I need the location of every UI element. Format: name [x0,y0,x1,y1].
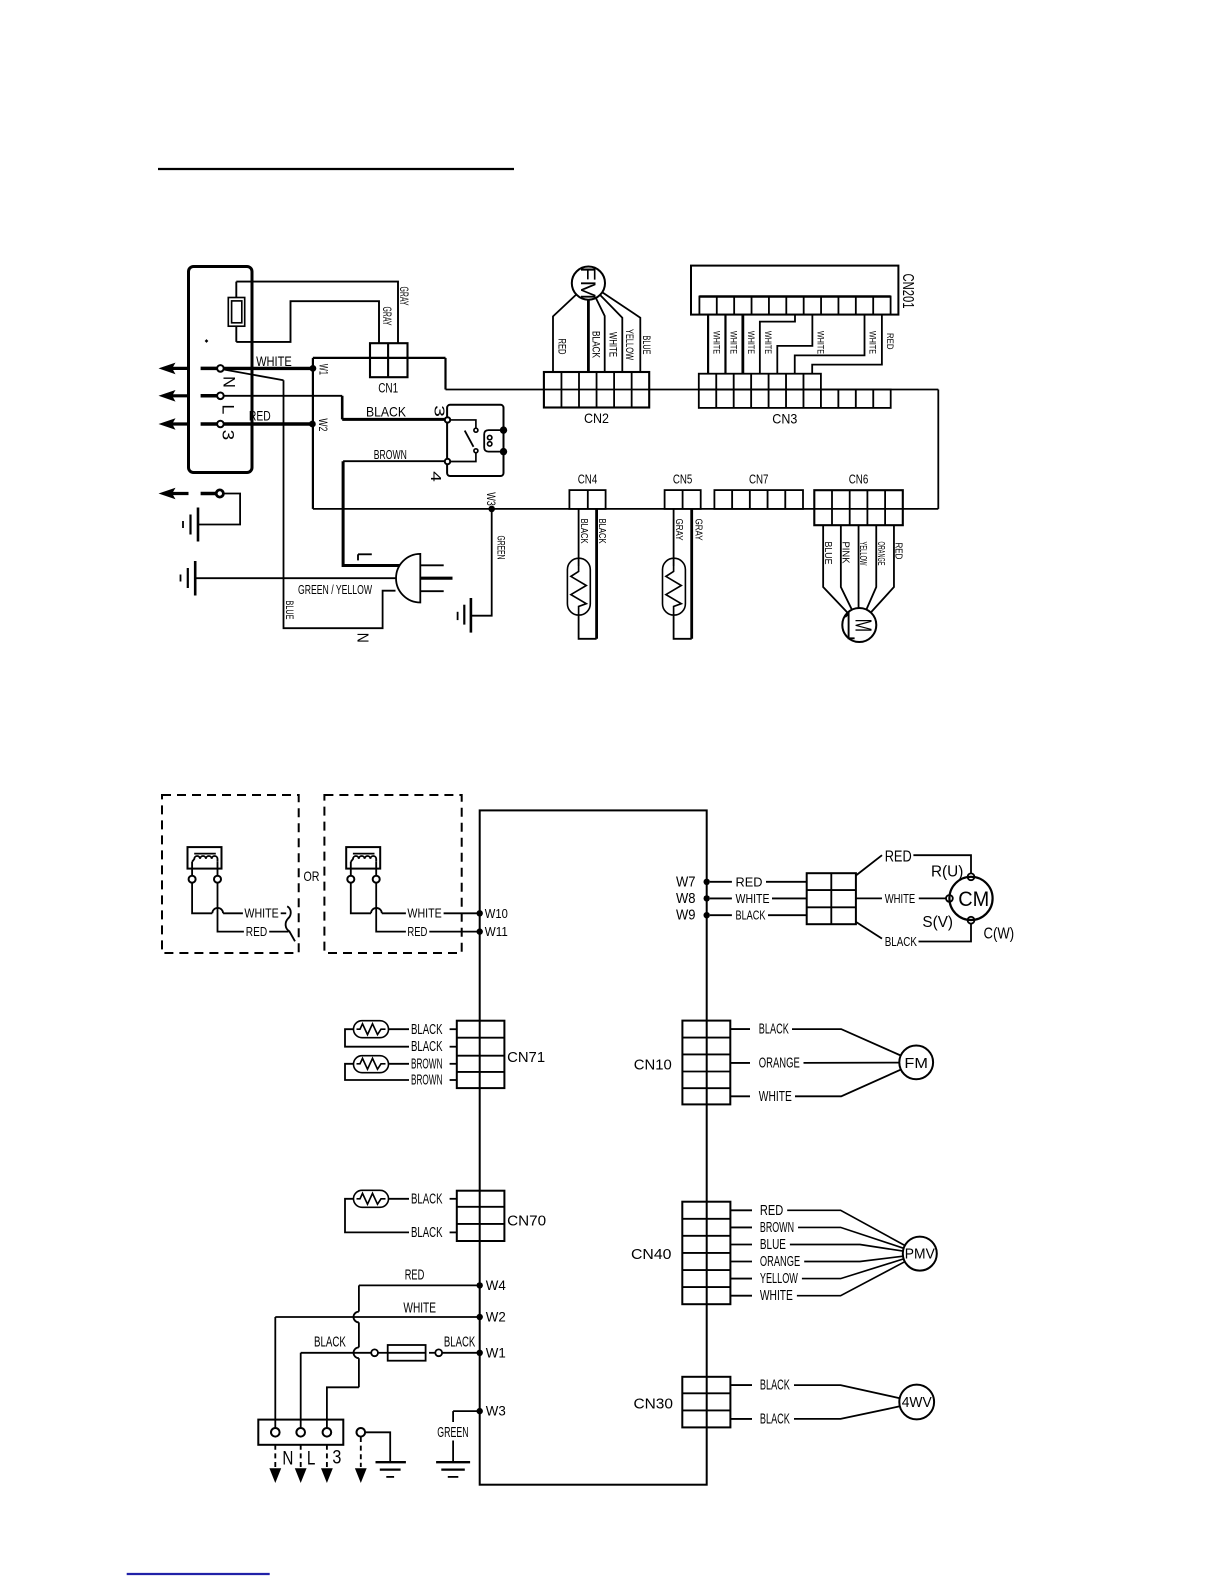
wire CN6 BLUE to M [823,525,847,613]
svg-text:RED: RED [249,407,271,423]
svg-text:YELLOW: YELLOW [623,329,635,360]
svg-text:W2: W2 [486,1309,506,1325]
wire CN201-2 to CN3-2 [724,315,726,374]
svg-text:CN7: CN7 [749,472,769,486]
wire CN6 YELLOW to M [858,525,860,608]
wire right vertical down to bus [937,390,939,509]
wire CN40 BLUE to PMV [790,1245,903,1252]
svg-text:4: 4 [427,471,444,482]
wire H2 loop [345,1064,409,1080]
node W2 dot [309,421,316,428]
wire CN201-7 to CN3-5 [777,315,812,374]
connector CN71 [457,1021,505,1088]
stub CN70 row1 [450,1198,457,1200]
fuse F1 outer body [228,298,244,327]
svg-text:RED: RED [736,875,763,889]
svg-text:CM: CM [958,888,989,911]
ground G3 symbol [470,598,473,633]
node W8 dot [704,895,710,901]
node W10 dot [477,910,483,916]
svg-text:FM: FM [576,267,599,300]
svg-text:BROWN: BROWN [411,1055,443,1072]
wire W9 BLACK a [710,914,732,916]
node W3 dot bottom [477,1408,483,1414]
svg-text:BLACK: BLACK [596,519,608,544]
wire W7 RED a [710,881,732,883]
wire CM WHITE b [919,897,946,899]
svg-text:BLUE: BLUE [640,336,652,355]
svg-text:WHITE: WHITE [403,1299,436,1316]
wire W1 W2 vertical link [312,358,314,424]
svg-text:BLACK: BLACK [411,1038,443,1055]
svg-text:W3: W3 [484,492,498,506]
svg-text:WHITE: WHITE [607,332,619,357]
wire CN201-11 to CN3-7 [812,315,882,374]
wire W8 WHITE b [772,897,807,899]
node W4 dot [477,1282,483,1288]
svg-text:BLACK: BLACK [411,1190,443,1207]
terminal N circle [217,365,224,372]
heater H2 zigzag [357,1058,386,1069]
wire W7 RED b [766,881,807,883]
connector CN2 [544,372,649,408]
wire BLACK W1 a [301,1352,372,1354]
svg-text:BLACK: BLACK [411,1021,443,1038]
hook squiggle option1 [286,906,295,941]
wire fuse bottom lead [235,326,237,342]
svg-text:RED: RED [405,1267,425,1284]
wire CM RED to top [913,855,971,873]
node W9 dot [704,912,710,918]
svg-text:RED: RED [884,333,895,350]
wire TH2 bottom [674,615,692,639]
wire L to corner [224,395,342,397]
svg-text:BROWN: BROWN [374,448,407,462]
svg-text:BLACK: BLACK [590,331,602,358]
plug pin N [420,590,443,592]
svg-text:W2: W2 [316,418,330,431]
plug pin L [420,564,443,566]
wire CN201-3 to CN3-3 [741,315,744,374]
fuse F2 circle left [371,1349,378,1356]
wire WHITE N to W1 [224,367,313,370]
svg-text:WHITE: WHITE [745,331,756,354]
wire fuse link [378,1352,388,1354]
heater H3 zigzag [357,1193,386,1204]
svg-text:L: L [307,1448,316,1469]
stub CN71 row4 [450,1079,457,1081]
relay switch blade [465,431,474,447]
fuse F2 circle right [435,1349,442,1356]
terminal R(U) circle [968,873,975,880]
svg-text:BLACK: BLACK [411,1224,443,1241]
connector CN6 [814,490,903,525]
wire GRAY inner bottom [236,301,379,343]
blue footer line [127,1573,270,1575]
svg-text:S(V): S(V) [922,914,953,931]
arrow to indoor L [159,390,176,402]
stub CN71 row2 [450,1046,457,1048]
wire T1 red lead [218,883,244,932]
svg-text:M: M [850,619,876,633]
ground G5 symbol [376,1461,406,1463]
svg-text:BLACK: BLACK [314,1333,346,1350]
wire FM YELLOW [600,295,622,372]
transformer T1 [188,847,222,869]
wire CN40 WHITE to PMV [797,1262,905,1296]
svg-text:N: N [282,1448,293,1469]
svg-text:C(W): C(W) [984,925,1015,942]
svg-text:GRAY: GRAY [380,307,392,326]
arrow lead N [274,1445,276,1467]
terminal earth2 circle [357,1428,366,1437]
svg-text:BLACK: BLACK [366,404,407,420]
svg-text:GRAY: GRAY [673,519,685,541]
wire CN201-6 to CN3-4 [760,315,795,374]
arrow to indoor 3 [159,418,176,430]
motor FM circle [572,267,605,300]
label L mark near plug [358,553,372,555]
svg-text:CN4: CN4 [578,472,598,486]
valve 4WV circle [899,1385,934,1420]
wire CN6 ORANGE to M [866,525,876,609]
wire W1 up to CN1 middle [313,357,446,359]
wire T1 red dash [269,931,288,933]
svg-text:L: L [219,404,238,414]
relay coil dot bottom [500,448,507,455]
svg-text:OR: OR [304,868,320,884]
node W7 dot [704,879,710,885]
PCB outline box [480,810,707,1484]
stub CN71 row1 [450,1028,457,1030]
svg-text:W4: W4 [486,1277,506,1293]
connector CN3 bottom row [699,390,891,408]
svg-text:WHITE: WHITE [760,1287,793,1304]
stub CN40 row3 [730,1244,752,1246]
wire CN40 BROWN to PMV [798,1227,904,1248]
svg-text:GREEN: GREEN [437,1424,468,1441]
svg-text:WHITE: WHITE [759,1088,792,1105]
wire CN10 WHITE to FM [795,1070,901,1097]
connector CN5 [665,490,701,509]
wire T2 red to W11 [429,931,479,933]
svg-text:3: 3 [431,405,448,417]
terminal block TB2 [258,1420,343,1445]
svg-text:RED: RED [555,339,567,355]
svg-text:RED: RED [885,849,912,866]
wire L-live down to plug [343,461,400,565]
wire CN5 right pin [690,509,693,639]
wire CN30 BLACK2 to 4WV [794,1406,900,1419]
stub CN70 row3 [450,1231,457,1233]
svg-text:N: N [353,633,370,643]
terminal S(V) circle [946,895,953,902]
wire CM RED diag [856,855,882,875]
connector CN4 [569,490,605,509]
wire WHITE to terminal N [274,1317,276,1428]
wire CN4 right pin [595,509,598,639]
svg-text:3: 3 [219,430,238,441]
connector CN30 [682,1377,730,1428]
small dot marker [205,339,209,343]
svg-text:CN30: CN30 [634,1397,674,1413]
terminal earth circle [216,490,223,497]
svg-text:BROWN: BROWN [411,1072,443,1089]
terminal 32 circle [323,1428,332,1437]
stub CN10 row5 [730,1095,750,1097]
arrow lead L [300,1445,302,1467]
svg-text:PINK: PINK [839,542,851,564]
connector CN1 [370,343,408,377]
svg-text:BROWN: BROWN [760,1219,794,1236]
wire TH1 bottom [579,615,597,639]
svg-text:W1: W1 [486,1344,506,1360]
sensor TH2 resistor zigzag [666,566,681,615]
svg-text:RED: RED [246,925,267,939]
wire T2 white lead [351,883,371,914]
svg-text:BLUE: BLUE [822,542,834,565]
svg-text:RED: RED [893,543,905,560]
fuse F1 inner body [232,301,242,323]
wire W9 BLACK b [768,914,807,916]
svg-text:W1: W1 [317,364,331,375]
svg-text:CN6: CN6 [849,472,869,486]
wire CN1 mid down to main line [444,358,446,390]
stub CN30 row1 [730,1384,752,1386]
stub CN40 row4 [730,1261,752,1263]
svg-text:W10: W10 [485,906,508,921]
wire CN201-1 to CN3-1 [707,315,709,374]
svg-text:CN3: CN3 [772,411,797,427]
svg-text:BLACK: BLACK [578,519,590,544]
ground G1 symbol [197,508,200,542]
dashed box option 2 [324,795,461,953]
svg-text:CN201: CN201 [899,274,916,309]
wire W2 down to bus [312,424,314,509]
wire T1 white dash [281,912,287,914]
relay coil dot top [500,426,507,433]
arrow lead earth [360,1437,362,1467]
stub CN10 row1 [730,1028,750,1030]
bus wire bottom [313,508,938,510]
valve PMV circle [903,1237,937,1271]
connector CN40 [682,1202,730,1305]
stub CN71 row3 [450,1063,457,1065]
ground G4 symbol [436,1461,470,1463]
stub CN40 row6 [730,1295,752,1297]
svg-text:N: N [220,376,239,388]
wire GREEN vertical a [452,1411,454,1422]
sensor TH1 body [567,558,590,615]
wire BROWN relay4 to corner [343,460,445,462]
wire BLACK W1 b [429,1352,435,1354]
node W2 dot bottom [477,1314,483,1320]
terminal L stub [201,394,217,398]
svg-text:CN40: CN40 [631,1247,671,1263]
arrow to indoor earth [159,488,176,500]
relay contact bottom circle [474,449,478,453]
node W11 dot [477,928,483,934]
stub CN40 row5 [730,1278,752,1280]
svg-text:WHITE: WHITE [867,331,878,354]
svg-text:BLACK: BLACK [736,909,766,923]
terminal earth stub [201,492,216,496]
terminal N stub [201,367,217,371]
relay contact wire top [450,420,476,428]
wire GREEN vertical b [452,1441,454,1463]
heater H1 zigzag [357,1024,386,1035]
plug body [396,554,420,603]
wire FM BLACK [587,300,590,372]
svg-text:ORANGE: ORANGE [875,542,887,566]
terminal L circle [217,393,224,400]
wire CN6 PINK to M [841,525,852,610]
svg-text:GREEN: GREEN [494,536,506,560]
ground G2 symbol [194,561,197,596]
stub CN40 row1 [730,1209,752,1211]
svg-text:WHITE: WHITE [736,892,770,906]
svg-text:BLACK: BLACK [760,1410,790,1427]
wire main line to CN3 right [446,389,939,391]
wire WHITE W2 [275,1316,479,1318]
wire W8 WHITE a [710,897,732,899]
wire CN30 BLACK1 to 4WV [794,1385,900,1398]
connector CN7 [714,490,803,509]
heater H1 body [354,1021,389,1038]
wire T2 red lead [376,883,406,932]
wire GREEN/YELLOW to plug [195,577,396,579]
sensor TH2 body [663,558,686,615]
wire CM BLACK diag [856,922,882,939]
connector CN70 [457,1191,505,1241]
wire BLACK to relay 3 [342,418,446,421]
stub CN30 row3 [730,1418,752,1420]
wire CN10 ORANGE to FM [804,1062,900,1064]
svg-text:BLUE: BLUE [283,601,295,620]
svg-text:FM: FM [904,1055,928,1072]
terminal C(W) circle [968,917,975,924]
stub CN40 row2 [730,1226,752,1228]
terminal N2 circle [271,1428,280,1437]
relay coil loop 1 [488,435,492,439]
relay contact wire bottom [450,453,476,462]
svg-text:CN71: CN71 [507,1050,545,1066]
terminal 3 stub [201,422,217,426]
sensor TH1 resistor zigzag [571,566,586,615]
terminal L2 circle [296,1428,305,1437]
svg-text:WHITE: WHITE [244,907,278,921]
label 1 of 1M [845,614,854,639]
connector CN201 outer [691,266,898,315]
svg-text:WHITE: WHITE [256,353,292,369]
node W1 dot bottom [477,1350,483,1356]
svg-text:3: 3 [332,1448,341,1469]
relay terminal 3 circle [445,417,450,422]
wire GREEN down [471,509,492,616]
svg-text:BLACK: BLACK [759,1021,789,1038]
wire CN6 RED to M [871,525,894,612]
wire CN40 RED to PMV [787,1210,905,1245]
wire earth to ground1 [198,494,240,525]
arrow lead 3 [326,1445,328,1467]
wire BLUE down [284,380,396,628]
wire RED vertical with hops [358,1285,360,1311]
arrow to indoor N [159,363,176,375]
wire H2 to BROWN [389,1063,410,1065]
transformer T2 [346,847,380,869]
svg-text:CN2: CN2 [584,410,609,426]
wire GREEN W3 [453,1410,480,1412]
wire T1 white lead [192,883,212,914]
svg-text:WHITE: WHITE [762,331,773,354]
fuse F2 body [388,1345,426,1361]
svg-text:R(U): R(U) [931,864,963,881]
wire CN5 left pin [673,509,675,566]
svg-text:W9: W9 [676,907,696,924]
terminal block TB1 [189,267,253,473]
motor M circle [842,608,876,642]
motor FM2 circle [899,1046,933,1080]
svg-text:BLACK: BLACK [444,1333,475,1350]
wire CN40 ORANGE to PMV [804,1256,903,1261]
relay coil [484,430,502,452]
wire H1 loop [345,1029,409,1047]
svg-text:GRAY: GRAY [397,287,409,306]
stub CN10 row3 [730,1062,750,1064]
node W1 dot [310,365,317,372]
connector CN10 [682,1021,730,1105]
svg-text:WHITE: WHITE [728,331,739,354]
wire N diagonal from terminal [224,370,284,381]
wire H3 to BLACK [389,1198,410,1200]
wire fuse top lead [235,282,237,298]
svg-text:GRAY: GRAY [692,519,704,541]
wire FM RED [553,295,576,373]
svg-text:WHITE: WHITE [815,331,826,354]
svg-text:WHITE: WHITE [710,331,721,354]
svg-text:YELLOW: YELLOW [857,542,869,566]
svg-text:ORANGE: ORANGE [759,1054,800,1071]
svg-text:GREEN / YELLOW: GREEN / YELLOW [298,582,372,597]
wire FM BLUE [602,292,640,372]
wire H3 loop [345,1199,409,1233]
wire CM BLACK to bottom [919,924,972,942]
connector CM plug [807,873,856,924]
svg-text:PMV: PMV [905,1247,935,1263]
svg-text:BLUE: BLUE [760,1236,786,1253]
svg-text:WHITE: WHITE [407,907,441,921]
wire CN10 BLACK to FM [792,1029,901,1055]
wire CM WHITE a [856,897,882,899]
heater H2 body [354,1056,389,1073]
wire H1 to BLACK [389,1028,410,1030]
wire RED W4 [359,1284,480,1286]
relay coil loop 2 [488,442,492,446]
svg-text:CN5: CN5 [673,472,693,486]
terminal 3 circle [217,421,224,428]
svg-text:W7: W7 [676,874,696,891]
svg-text:CN10: CN10 [634,1057,672,1073]
svg-text:W11: W11 [485,924,508,939]
wire GRAY outer to CN1 pin2 [236,282,398,344]
wire L corner down [341,396,344,420]
plug pin E [420,577,452,580]
svg-text:BLACK: BLACK [885,935,918,949]
wire RED to terminal 3 [327,1387,359,1428]
svg-text:YELLOW: YELLOW [760,1270,799,1287]
wire T2 white to W10 [444,912,480,914]
wire CN4 left pin [578,509,580,566]
